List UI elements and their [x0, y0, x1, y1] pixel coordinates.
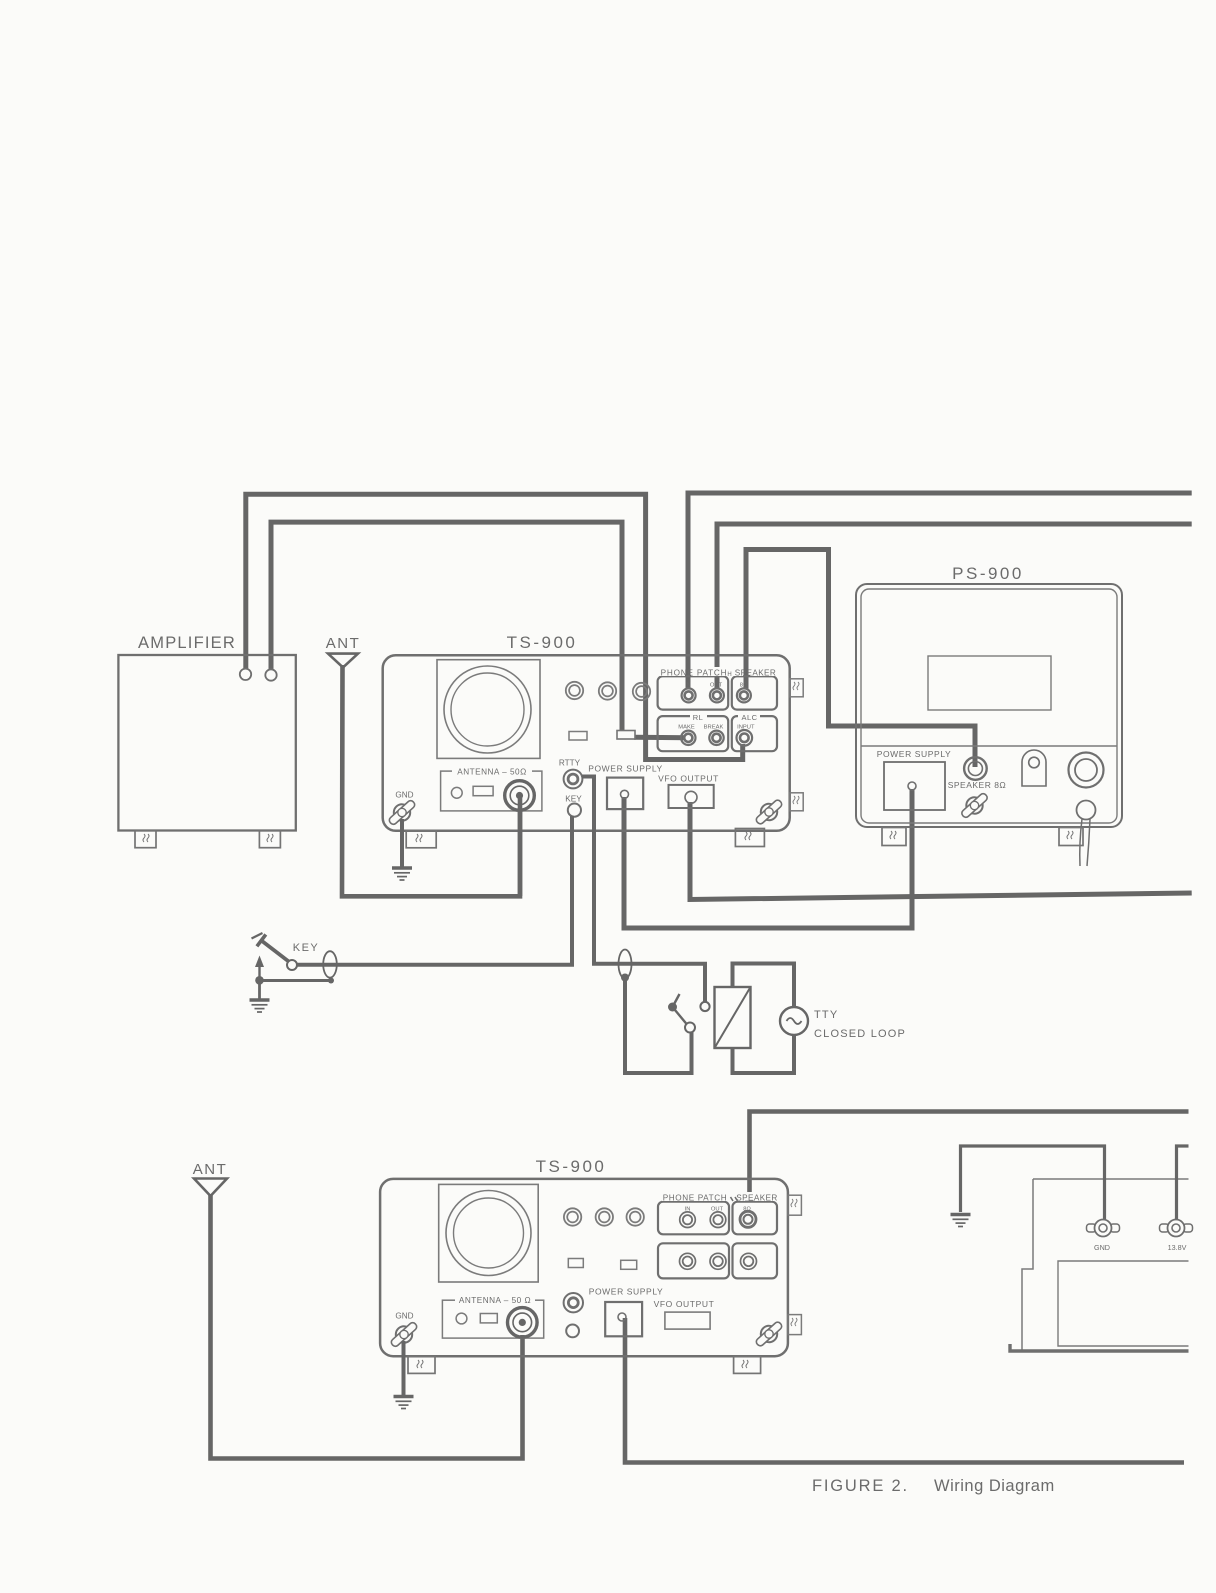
ANTENNA group box (TS2) — [442, 1300, 543, 1338]
TS-900 #1 knob 1 — [566, 682, 583, 699]
ground symbol (TS1) — [392, 868, 412, 880]
TS-900 #2 SPEAKER group box — [733, 1202, 778, 1235]
ground symbol (psu) — [951, 1215, 971, 1227]
TS2 bottom-right screw — [752, 1318, 786, 1351]
PS-900 cabinet outer — [856, 584, 1122, 827]
svg-text:SPEAKER: SPEAKER — [735, 669, 776, 678]
tick marks before SPEAKER (TS2) — [731, 1197, 738, 1201]
tty switch moving contact — [685, 1023, 695, 1033]
TS1 right tab upper — [790, 679, 804, 697]
svg-text:TS-900: TS-900 — [536, 1157, 607, 1176]
VFO OUTPUT connector (TS1) — [669, 785, 714, 808]
svg-text:ANT: ANT — [193, 1161, 228, 1178]
PS-900 fuse holder — [957, 789, 991, 822]
wire psu 13.8V branch — [1177, 1146, 1189, 1220]
TS-900 #1 fan housing — [437, 660, 540, 759]
wire RTTY jack to TTY loop — [582, 777, 705, 1002]
TS-900 #2 fan housing — [439, 1184, 539, 1282]
TS-900 #2 fan outer circle — [446, 1191, 531, 1276]
TS2 right tab upper — [788, 1195, 802, 1215]
TS-900 #2 knob 1 — [564, 1208, 581, 1225]
TS-900 #1 fan inner circle — [451, 673, 524, 746]
TS-900 #2 lower group box right — [733, 1243, 778, 1278]
TS-900 #2 knob 3 — [627, 1208, 644, 1225]
wire amplifier-left to ALC INPUT — [246, 494, 743, 759]
ANTENNA SO-239 jack (TS2) — [508, 1308, 538, 1338]
svg-text:ANTENNA – 50Ω: ANTENNA – 50Ω — [457, 768, 527, 777]
POWER SUPPLY connector (TS2) — [605, 1302, 642, 1336]
tty loop wiring — [733, 964, 795, 1074]
TS-900 #1 fan outer circle — [444, 666, 531, 753]
wire right-edge to PHONE PATCH IN — [688, 493, 1192, 689]
connector rect on MAKE wire — [617, 731, 635, 740]
TS1 foot right — [735, 829, 764, 847]
tty AC source — [780, 1007, 808, 1035]
SPEAKER label (TS2) — [734, 1192, 778, 1203]
ANTENNA 50ohm label (TS1) — [452, 766, 532, 777]
wire GND bolt to ground (TS2) — [402, 1341, 406, 1395]
svg-text:RL: RL — [693, 713, 704, 722]
POWER SUPPLY connector (PS-900) — [884, 762, 945, 810]
PS-900 power cord — [1080, 819, 1090, 866]
GND bolt (TS2) — [387, 1318, 421, 1351]
telegraph key contact — [287, 960, 297, 970]
RTTY jack — [564, 770, 583, 789]
amplifier terminal right — [265, 669, 276, 680]
psu top edge — [1033, 1178, 1189, 1180]
ground symbol (TS2) — [394, 1397, 414, 1409]
tty junction dot — [621, 974, 629, 982]
TS1 bottom-right screw — [752, 796, 786, 829]
TS-900 #2 knob 2 — [596, 1208, 613, 1225]
tty switch fixed contact — [700, 1002, 709, 1011]
amplifier box — [118, 655, 295, 831]
PS-900 foot left — [882, 828, 906, 846]
tty transformer — [715, 987, 751, 1048]
TS2 foot right — [734, 1356, 761, 1373]
PS-900 cord grommet — [1077, 801, 1096, 820]
svg-text:BREAK: BREAK — [704, 725, 724, 731]
amplifier foot left — [135, 831, 156, 848]
PS-900 foot right — [1059, 828, 1083, 846]
13.8V wing terminal — [1160, 1220, 1193, 1237]
TS-900 #1 RL group box — [658, 716, 729, 751]
RL BREAK jack — [709, 731, 723, 745]
SPEAKER label — [733, 667, 777, 678]
key junction dot — [255, 976, 264, 985]
TS2 foot left — [408, 1356, 435, 1373]
WIRES-TOP — [246, 493, 1192, 928]
psu meter window — [1058, 1261, 1189, 1346]
TS-900 #1 knob 2 — [599, 682, 616, 699]
ground symbol (key) — [250, 981, 270, 1013]
KEY jack (TS2) — [566, 1325, 579, 1338]
PHONE PATCH OUT jack (TS2) — [710, 1212, 726, 1228]
RL label — [690, 712, 707, 722]
ANTENNA small circle (TS2) — [456, 1313, 467, 1324]
svg-text:POWER SUPPLY: POWER SUPPLY — [588, 764, 663, 774]
svg-text:CLOSED LOOP: CLOSED LOOP — [814, 1028, 906, 1040]
POWER SUPPLY connector (TS1) — [607, 778, 643, 810]
wire TS-900 POWER SUPPLY to PS-900 POWER SUPPLY — [624, 789, 912, 928]
TS-900 #1 chassis — [383, 655, 790, 831]
psu left edge — [1022, 1179, 1033, 1351]
TS-900 #1 small plate — [569, 732, 587, 741]
svg-text:GND: GND — [395, 791, 413, 800]
svg-text:GND: GND — [395, 1312, 413, 1321]
TS-900 #1 knob 3 — [633, 683, 650, 700]
wire tty switch branch — [625, 978, 692, 1074]
svg-text:VFO OUTPUT: VFO OUTPUT — [658, 774, 719, 784]
svg-text:ALC: ALC — [741, 713, 757, 722]
svg-text:RTTY: RTTY — [559, 759, 581, 768]
lower jack 3 (TS2) — [741, 1253, 757, 1269]
wire GND bolt to ground (TS1) — [400, 819, 404, 867]
ALC INPUT jack — [737, 730, 753, 746]
VFO OUTPUT connector (TS2) — [665, 1312, 710, 1329]
amplifier foot right — [259, 831, 280, 848]
lower jack 1 (TS2) — [680, 1253, 696, 1269]
SPEAKER 8ohm jack (PS-900) — [964, 757, 987, 780]
svg-text:VFO OUTPUT: VFO OUTPUT — [654, 1299, 715, 1309]
TS1 right tab lower — [790, 793, 804, 811]
RL MAKE jack — [681, 731, 695, 745]
PS-900 cabinet inner — [861, 589, 1117, 823]
key arrow — [255, 956, 264, 981]
svg-text:Wiring Diagram: Wiring Diagram — [934, 1477, 1055, 1495]
svg-text:PHONE PATCH: PHONE PATCH — [661, 669, 728, 678]
TS2 right tab lower — [788, 1315, 802, 1335]
wire ANT to ANTENNA jack (loop under TS-900) — [342, 665, 520, 896]
ANTENNA SO-239 jack (TS1) — [505, 781, 535, 811]
lower jack 2 (TS2) — [710, 1253, 726, 1269]
svg-text:GND: GND — [1094, 1243, 1110, 1252]
PS-900 keyhole slot — [1022, 750, 1046, 786]
svg-text:SPEAKER: SPEAKER — [736, 1194, 777, 1203]
PHONE PATCH IN jack (TS2) — [680, 1212, 696, 1228]
wire MAKE connector stub — [634, 735, 688, 741]
wire ANTENNA jack down (TS1) — [518, 796, 523, 896]
svg-text:KEY: KEY — [565, 795, 582, 804]
ANTENNA small circle (TS1) — [451, 787, 462, 798]
svg-text:ANTENNA – 50 Ω: ANTENNA – 50 Ω — [459, 1296, 531, 1305]
tty switch pivot — [668, 1003, 677, 1012]
key cable ellipse — [323, 951, 337, 977]
tty cable ellipse — [619, 950, 632, 979]
wire TS-900 SPEAKER to PS-900 SPEAKER — [746, 550, 975, 768]
ANTENNA group box (TS1) — [441, 771, 542, 811]
svg-text:SPEAKER 8Ω: SPEAKER 8Ω — [948, 780, 1007, 790]
PHONE PATCH OUT jack — [710, 688, 724, 702]
wire power supply TS2 to right edge — [625, 1318, 1184, 1463]
ANTENNA small rect (TS1) — [473, 786, 493, 795]
wire amplifier-right to RL MAKE — [271, 522, 622, 734]
PHONE PATCH label (TS2) — [662, 1192, 728, 1203]
antenna symbol (top) — [328, 654, 358, 668]
wire speaker (right edge to 8ohm jack TS2) — [750, 1112, 1189, 1193]
TS-900 #2 chassis — [380, 1179, 788, 1356]
svg-text:POWER SUPPLY: POWER SUPPLY — [589, 1287, 664, 1297]
ANTENNA small rect (TS2) — [480, 1314, 497, 1323]
svg-text:H: H — [727, 672, 731, 678]
TS-900 #1 PHONE PATCH group box — [658, 676, 729, 709]
TS2 mid plate 2 — [621, 1260, 637, 1269]
PS-900 AC socket — [1069, 753, 1104, 788]
PHONE PATCH label — [660, 667, 728, 678]
amplifier terminal left — [240, 669, 251, 680]
svg-text:KEY: KEY — [293, 942, 320, 954]
psu bottom edge — [1010, 1344, 1189, 1351]
GND bolt (TS1) — [385, 796, 419, 829]
svg-text:TTY: TTY — [814, 1009, 838, 1021]
TS2 mid plate 1 — [568, 1259, 583, 1268]
TS1 foot left — [406, 831, 436, 848]
TS-900 #2 fan inner circle — [454, 1198, 524, 1268]
svg-text:ANT: ANT — [326, 635, 361, 652]
wire VFO OUTPUT to right edge — [690, 802, 1192, 900]
TS-900 #2 lower group box left — [658, 1243, 729, 1278]
PS-900 panel divider — [861, 745, 1117, 747]
svg-text:FIGURE 2.: FIGURE 2. — [812, 1477, 909, 1495]
key shield wire — [260, 978, 335, 984]
PHONE PATCH IN jack — [682, 688, 696, 702]
wire psu ground branch — [961, 1146, 1105, 1220]
SPEAKER 8ohm jack — [737, 688, 751, 702]
svg-text:TS-900: TS-900 — [507, 633, 578, 652]
PS-900 meter window — [928, 656, 1051, 710]
TS-900 #1 ALC group box — [732, 716, 777, 751]
ANTENNA 50ohm label (TS2) — [455, 1295, 535, 1306]
SPEAKER 8ohm jack (TS2) — [740, 1211, 756, 1227]
wire ANT2 to ANTENNA jack — [211, 1194, 523, 1459]
svg-text:13.8V: 13.8V — [1168, 1243, 1187, 1252]
GND wing terminal — [1087, 1220, 1120, 1237]
svg-text:AMPLIFIER: AMPLIFIER — [138, 634, 236, 652]
TS-900 #2 PHONE PATCH group box — [658, 1202, 729, 1235]
svg-text:PHONE PATCH: PHONE PATCH — [663, 1194, 728, 1203]
RTTY jack (TS2) — [564, 1293, 583, 1312]
tty switch lever — [673, 994, 688, 1025]
wire KEY jack down — [292, 816, 572, 965]
KEY jack — [568, 804, 581, 817]
svg-text:PS-900: PS-900 — [952, 564, 1024, 583]
antenna symbol (bottom) — [194, 1179, 227, 1197]
svg-text:POWER SUPPLY: POWER SUPPLY — [877, 749, 952, 759]
TS-900 #1 SPEAKER group box — [732, 676, 777, 709]
ALC label — [738, 712, 760, 722]
wire right-edge to PHONE PATCH OUT — [717, 524, 1192, 689]
telegraph key lever — [252, 933, 291, 963]
